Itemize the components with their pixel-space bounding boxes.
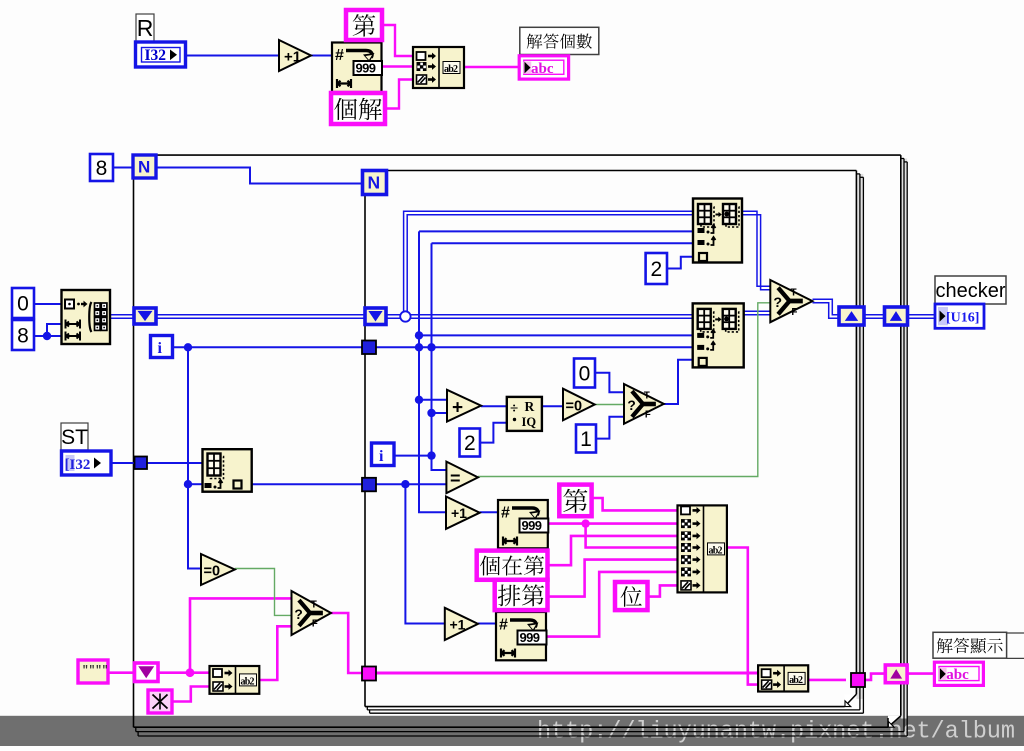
svg-text:IQ: IQ (522, 415, 537, 429)
2D array wire inner shift reg to junction ring to replace2 (386, 315, 692, 319)
svg-text:"""": """" (82, 665, 108, 677)
replace-array-subset node 1 (693, 199, 742, 263)
concatenate-strings node concat2 (758, 665, 808, 691)
control I32 array ST (62, 451, 112, 475)
wire +1c to numstr2 (478, 623, 496, 625)
watermark bar (0, 716, 1024, 746)
svg-text:0: 0 (17, 293, 29, 316)
2D array wire outer shift reg to inner shift reg (156, 315, 365, 319)
svg-text:T: T (311, 599, 317, 610)
constant 2 (replace1) (646, 253, 667, 284)
increment node +1b (446, 497, 480, 529)
wire numstr0 999 to concat0 row2 (pink) (381, 65, 413, 67)
pink wire concat-left out to select-outer f (259, 626, 291, 680)
select node big (770, 280, 812, 322)
label ST (61, 423, 88, 450)
svg-text:÷: ÷ (510, 401, 518, 417)
label jieda-geshu (520, 27, 599, 54)
svg-text:+1: +1 (284, 49, 301, 66)
quotient-remainder node (507, 397, 542, 431)
select node outer (292, 591, 332, 635)
pink wire const-paidi to concatbig row5 (548, 560, 678, 597)
wire const-gejie to concat0 row3 (pink) (385, 80, 413, 109)
string constant di1 (top) (346, 10, 382, 40)
svg-text:ab2: ab2 (789, 675, 803, 686)
svg-text:N: N (368, 173, 381, 193)
pink wire X-node to concat-left row2 (172, 687, 210, 702)
wire concat0 to indicator abc1 (pink) (464, 66, 521, 68)
svg-text:2: 2 (650, 258, 662, 281)
index-array node (203, 449, 252, 492)
green wire equals0a to select-outer s (235, 569, 292, 616)
wire const 2c to replace1 index (667, 257, 693, 269)
wire ST array control to tunnel and index-array (111, 462, 203, 464)
watermark url text (537, 719, 1015, 746)
green wire equals to select-big s (478, 303, 770, 477)
wire x419 branch to add input1 (419, 399, 447, 401)
svg-text:8: 8 (17, 325, 29, 348)
outer i terminal (151, 336, 173, 358)
pink wire const-di2 to concatbig row1 (592, 498, 678, 510)
outer N terminal (133, 155, 156, 178)
svg-text:#: # (335, 47, 344, 64)
svg-text:[I32: [I32 (65, 457, 91, 473)
indicator abc2 (pink) (934, 662, 983, 685)
svg-text:=0: =0 (204, 564, 221, 580)
inner i terminal (372, 443, 395, 466)
wire const 0b to select-inner t (595, 373, 624, 393)
inner right shift register (up arrow) (839, 307, 864, 325)
svg-text:I32: I32 (145, 47, 167, 64)
inner N terminal (363, 171, 387, 195)
svg-text:abc: abc (946, 667, 969, 683)
string constant gezaidi (477, 551, 548, 580)
svg-text:+: + (452, 398, 463, 419)
svg-text:0: 0 (579, 363, 591, 386)
wire const 0 to init-array dim1 (34, 303, 62, 305)
wire const 1 to select-inner f (596, 417, 624, 439)
pink left shift register (down arrow) (135, 663, 159, 682)
pink wire junction up to select-outer t (190, 598, 292, 672)
initialize-array node (62, 290, 111, 344)
constant 8b (dim) (12, 320, 34, 350)
wire init-array to outer shift register (2D array) (110, 315, 134, 319)
svg-text:999: 999 (356, 61, 376, 76)
pink long wire across inner loop to concat2 row1 (376, 672, 758, 675)
svg-text:N: N (138, 158, 150, 177)
pink inner right square tunnel (851, 673, 865, 687)
svg-text:1: 1 (580, 428, 592, 451)
outer left square tunnel ST (135, 457, 148, 470)
add node + (447, 390, 481, 422)
constant 0 (dim) (12, 288, 34, 318)
pink wire shift register to concat-left row1 with junction (158, 668, 210, 677)
svg-text:=0: =0 (566, 399, 583, 415)
wire outer i to inner loop tunnel (172, 343, 362, 351)
svg-text:R: R (525, 399, 535, 414)
concatenate-strings node concat0 (413, 47, 464, 88)
svg-text:i: i (158, 340, 163, 357)
wire const 2b to quotient (480, 423, 507, 443)
pink wire const-gezaidi to concatbig row3 (548, 536, 678, 565)
wire inner i terminal to x431 (394, 455, 432, 457)
junction ring on 2D wire (400, 311, 410, 321)
green wire equals0b to select-inner s (595, 404, 624, 406)
replace-array-subset node 2 (693, 303, 744, 367)
pink empty-string X node (148, 690, 172, 713)
svg-text:[U16]: [U16] (946, 311, 979, 326)
wire const-di1 to concat0 row1 (pink) (382, 25, 413, 56)
2D array branch up to replace1 (404, 211, 693, 313)
inner left square tunnel index (362, 478, 376, 492)
wire x419 branch to replace2 row2 (419, 334, 692, 336)
increment node +1c (445, 608, 478, 640)
select node inner (624, 384, 664, 424)
indicator abc1 (pink) (519, 56, 568, 79)
svg-text:ab2: ab2 (709, 545, 723, 556)
svg-text:abc: abc (531, 61, 554, 77)
wire select-inner out to replace2 index (664, 360, 692, 404)
wire const 8b to init-array dims (34, 324, 62, 340)
wire +1b to numstr1 (480, 511, 498, 513)
wire outer i vertical to index-array and equals0a (184, 347, 203, 568)
svg-text:=: = (450, 469, 461, 489)
label jieda-xianshi (933, 632, 1024, 658)
outer right shift register (up arrow) (885, 307, 908, 325)
string constant di2 (559, 485, 591, 517)
pink outer right shift register (up arrow) (885, 665, 907, 683)
pink wire select-outer out to inner loop tunnel (331, 613, 362, 673)
number-to-string node numstr2 (496, 612, 547, 660)
constant 1 (select) (576, 425, 596, 453)
constant 0b (select) (574, 359, 595, 388)
vertical wire x431 replace1-row3 to equals input1 (427, 243, 692, 470)
svg-text:R: R (137, 15, 154, 41)
inner left square tunnel i (362, 341, 376, 355)
svg-text:T: T (644, 390, 650, 401)
wire R I32 to +1 (186, 55, 279, 57)
svg-text:+1: +1 (450, 617, 466, 633)
wire add to quotient (481, 405, 507, 407)
wire outer N to inner N (156, 168, 362, 184)
string constant wei (615, 582, 648, 610)
equals node = (446, 462, 478, 494)
wire replace1 out to select-big t (2D) (741, 211, 770, 290)
constant 8 (N) (90, 154, 113, 181)
pink wire branch down to concatbig row4 (586, 524, 678, 548)
string constant gejie (331, 93, 385, 124)
pink wire numstr2 to concatbig row6 (546, 572, 678, 637)
pink wire string-array const to pink shift register (108, 671, 134, 674)
inner left shift register (down arrow) (365, 308, 386, 325)
svg-text:999: 999 (520, 630, 540, 645)
pink inner left square tunnel (362, 667, 376, 681)
indicator U16 array (935, 304, 984, 328)
pink wire concat2 out to tunnels and abc2 (808, 674, 934, 680)
outer for-loop frame (stacked pages) (134, 155, 908, 736)
wire +1 to numstr0 (311, 55, 332, 57)
svg-text:F: F (312, 618, 318, 629)
svg-text:i: i (379, 448, 384, 465)
equal-to-0 node a (201, 554, 235, 585)
svg-text:T: T (790, 287, 796, 298)
inner loop tunnel i-wire to replace2 row3 (376, 343, 692, 351)
svg-text:checker: checker (935, 280, 1005, 302)
pink wire concatbig out to concat2 row2 (727, 548, 758, 685)
number-to-string node numstr0 (332, 43, 382, 93)
vertical wire x419 replace1-row2 to +1b (415, 231, 693, 512)
svg-text:#: # (501, 505, 510, 522)
wire branch down to +1c (405, 484, 444, 623)
increment node +1a (279, 40, 311, 71)
pink string-array constant (78, 660, 108, 683)
wire replace2 out to select-big f (2D) (744, 311, 771, 315)
wire select-big out through shift tunnels to U16 (2D) (813, 299, 936, 318)
concatenate-strings node concat-big (678, 505, 727, 592)
pink wire const-wei to concatbig row7 (648, 585, 678, 596)
wire index-array out to inner tunnel to equals (252, 480, 447, 488)
svg-text:2: 2 (464, 432, 476, 455)
svg-text:8: 8 (96, 157, 108, 180)
svg-text:#: # (499, 617, 508, 634)
outer left shift register (down arrow) (134, 308, 156, 324)
label checker (935, 276, 1006, 304)
equal-to-0 node b (563, 389, 595, 421)
wire x431 branch to add input2 (432, 412, 448, 414)
svg-text:ab2: ab2 (444, 64, 458, 75)
wire const 8 to outer N (113, 167, 133, 169)
pink wire numstr1 to concatbig row2 (548, 519, 678, 527)
svg-text:F: F (645, 409, 651, 420)
label R (136, 14, 154, 42)
inner for-loop frame (stacked pages) (365, 171, 863, 714)
svg-text:ST: ST (61, 426, 88, 449)
number-to-string node numstr1 (498, 500, 548, 548)
concatenate-strings node concat-left (210, 666, 260, 694)
string constant paidi (495, 580, 548, 610)
svg-text:+1: +1 (451, 505, 467, 521)
svg-text:F: F (791, 307, 797, 318)
control I32 R (136, 42, 186, 67)
svg-text:ab2: ab2 (241, 676, 255, 687)
constant 2b (quotient) (460, 429, 481, 457)
wire quotient R to equals0b (542, 405, 563, 407)
svg-text:999: 999 (522, 518, 542, 533)
